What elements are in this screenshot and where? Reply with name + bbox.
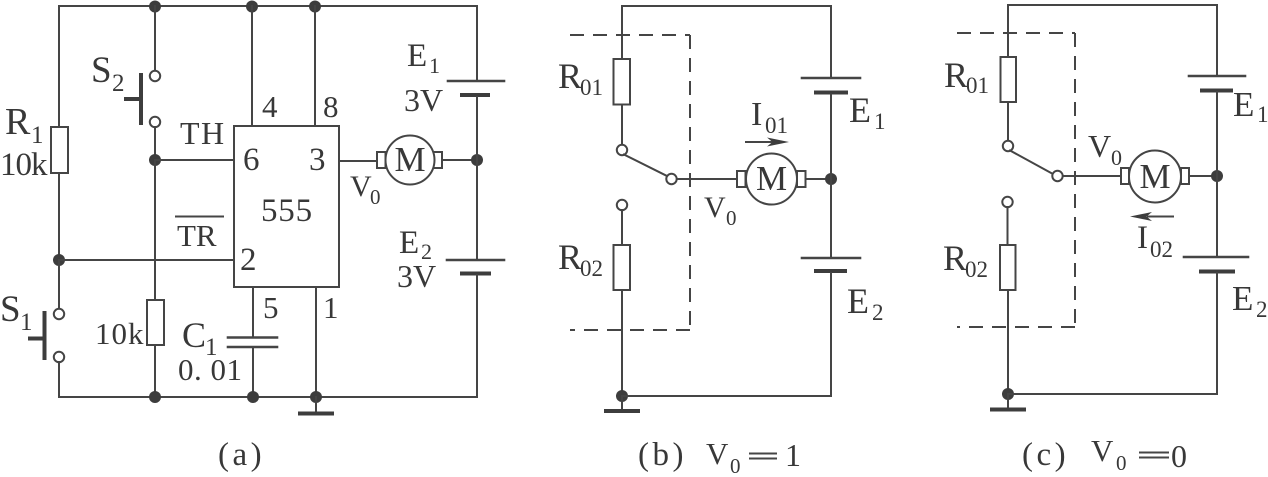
pin label 8 xyxy=(323,89,339,124)
battery E1 (c) xyxy=(1189,76,1245,91)
svg-text:0: 0 xyxy=(1171,438,1187,474)
dashed feedback box (c) xyxy=(957,33,1075,327)
wire 10k resistor to bottom rail xyxy=(154,345,156,397)
node 10k bottom junction xyxy=(149,391,161,403)
battery E1 (a) xyxy=(448,81,504,95)
switch S2 pushbutton xyxy=(126,71,160,127)
svg-text:V: V xyxy=(704,191,726,224)
wire pin4 to top rail xyxy=(251,6,253,126)
svg-text:2: 2 xyxy=(112,70,125,97)
label V0 output (a) xyxy=(350,170,381,209)
switch SPDT (b): blade xyxy=(624,155,667,177)
wire pin8 to top rail xyxy=(314,6,316,126)
node motor right rail junction (c) xyxy=(1211,170,1223,182)
wire left rail middle xyxy=(58,173,60,260)
wire node to S1 xyxy=(58,260,60,309)
svg-text:01: 01 xyxy=(966,73,989,98)
label 10k value of R1 xyxy=(0,147,48,183)
svg-text:E: E xyxy=(849,90,871,130)
node ground junction (b) xyxy=(616,390,628,402)
svg-text:E: E xyxy=(1233,85,1254,124)
wire motor to right rail (c) xyxy=(1189,175,1217,177)
switch SPDT (c): blade xyxy=(1010,151,1053,175)
label I02 current (c) xyxy=(1137,220,1173,262)
svg-text:E: E xyxy=(1232,279,1253,318)
label R1 xyxy=(5,101,44,149)
wire lower throw to R02 (b) xyxy=(621,210,623,245)
wire top rail (a) xyxy=(59,5,477,7)
ground (a) xyxy=(300,397,332,414)
wire right rail middle (b) xyxy=(830,95,832,258)
svg-text:02: 02 xyxy=(580,256,603,281)
switch S1 pushbutton xyxy=(30,309,64,362)
svg-text:V: V xyxy=(1091,433,1114,468)
svg-text:3: 3 xyxy=(309,142,326,178)
wire S1 to bottom rail xyxy=(58,362,60,397)
wire right rail middle (c) xyxy=(1216,92,1218,256)
svg-text:10k: 10k xyxy=(95,316,145,351)
wire pole to motor (b) xyxy=(677,178,737,180)
svg-text:E: E xyxy=(847,281,869,321)
label TR with overline xyxy=(176,217,223,254)
svg-text:2: 2 xyxy=(872,300,884,325)
svg-text:6: 6 xyxy=(243,142,260,178)
label E2 (c) xyxy=(1232,279,1268,322)
wire motor to right rail (b) xyxy=(806,178,832,180)
label V0 (c) xyxy=(1088,128,1122,170)
svg-text:(c): (c) xyxy=(1022,437,1069,473)
svg-text:8: 8 xyxy=(323,89,339,124)
label E1 (c) xyxy=(1233,85,1268,127)
svg-text:V: V xyxy=(350,170,372,203)
node ground junction (c) xyxy=(1002,388,1014,400)
svg-text:V: V xyxy=(1088,128,1111,164)
svg-text:01: 01 xyxy=(580,75,603,100)
svg-text:C: C xyxy=(182,315,206,355)
node motor right rail junction (b) xyxy=(825,173,837,185)
label C1 xyxy=(182,315,218,361)
label S2 xyxy=(91,50,125,97)
svg-text:M: M xyxy=(1139,157,1170,196)
svg-text:S: S xyxy=(0,289,21,330)
wire pin3 to motor xyxy=(339,160,377,162)
wire bottom rail (c) xyxy=(1008,393,1216,395)
svg-text:(b): (b) xyxy=(638,437,687,473)
label 10k value of lower resistor xyxy=(95,316,145,351)
label R01 (c) xyxy=(944,55,989,98)
wire top rail to R01 (c) xyxy=(1007,5,1009,57)
svg-text:I: I xyxy=(751,96,762,133)
svg-text:I: I xyxy=(1137,220,1148,256)
wire right rail bottom (c) xyxy=(1216,273,1218,394)
motor M (b) xyxy=(737,154,806,205)
node C1 bottom junction xyxy=(247,391,259,403)
svg-text:E: E xyxy=(399,225,419,261)
wire bottom rail (a) xyxy=(59,396,477,398)
node pin2 branch junction xyxy=(53,254,65,266)
svg-text:R: R xyxy=(558,237,582,277)
svg-text:0: 0 xyxy=(1116,451,1127,475)
motor M (c) xyxy=(1121,151,1189,203)
svg-text:0: 0 xyxy=(726,206,737,230)
wire pin1 to bottom rail xyxy=(315,287,317,397)
pin label 5 xyxy=(263,290,279,325)
svg-text:1: 1 xyxy=(20,309,33,336)
wire pin5 to capacitor xyxy=(252,287,254,337)
switch SPDT (c): pole terminal xyxy=(1052,171,1062,181)
node motor right rail junction xyxy=(471,154,483,166)
svg-text:10k: 10k xyxy=(0,147,48,183)
svg-text:1: 1 xyxy=(31,122,44,149)
node S2 top rail junction xyxy=(149,1,161,13)
label R02 (c) xyxy=(943,238,988,282)
motor M (a) xyxy=(377,136,442,185)
svg-text:02: 02 xyxy=(965,257,988,282)
caption (c) V0 = 0 xyxy=(1022,433,1187,475)
svg-text:3V: 3V xyxy=(404,82,443,118)
wire pin2 horizontal to 555 xyxy=(59,259,234,261)
pin label 2 xyxy=(240,242,257,278)
wire R02 to bottom rail (c) xyxy=(1007,290,1009,394)
svg-text:E: E xyxy=(407,38,427,74)
wire right rail top xyxy=(476,6,478,80)
resistor 10k lower body xyxy=(147,300,164,345)
battery E2 (a) xyxy=(447,260,504,274)
wire right rail bottom (b) xyxy=(830,273,832,396)
svg-text:(a): (a) xyxy=(218,437,265,473)
svg-text:M: M xyxy=(394,140,425,179)
switch SPDT (c): lower throw terminal xyxy=(1002,197,1012,207)
svg-text:R: R xyxy=(944,55,968,95)
svg-text:0: 0 xyxy=(1111,145,1122,170)
current arrow I01 (b) xyxy=(746,138,789,147)
svg-text:5: 5 xyxy=(263,290,279,325)
wire S2 to TH node xyxy=(154,127,156,160)
caption (b) V0 = 1 xyxy=(638,436,801,477)
ground (b) xyxy=(606,396,638,411)
wire TH node to pin 6 xyxy=(155,159,234,161)
label 3V of E2 (a) xyxy=(397,258,436,294)
label TH xyxy=(180,115,226,151)
svg-text:3V: 3V xyxy=(397,258,436,294)
svg-text:S: S xyxy=(91,50,112,91)
resistor R02 body (b) xyxy=(614,245,631,290)
capacitor C1 xyxy=(228,338,277,348)
pin label 3 xyxy=(309,142,326,178)
svg-text:1: 1 xyxy=(1257,102,1268,127)
node pin4 top rail junction xyxy=(246,1,258,13)
svg-text:0: 0 xyxy=(370,185,381,209)
ground (c) xyxy=(992,394,1024,410)
svg-text:TH: TH xyxy=(180,115,226,151)
switch SPDT (c): upper throw terminal xyxy=(1003,141,1013,151)
svg-text:1: 1 xyxy=(323,290,339,325)
label E1 (a) xyxy=(407,38,440,78)
battery E2 (c) xyxy=(1184,257,1248,272)
caption (a) xyxy=(218,437,265,473)
svg-text:R: R xyxy=(558,56,582,96)
wire R02 to bottom rail (b) xyxy=(621,290,623,396)
label 0.01 value of C1 xyxy=(178,352,243,387)
switch SPDT (b): pole terminal xyxy=(666,174,676,184)
svg-text:1: 1 xyxy=(874,109,886,134)
svg-text:0: 0 xyxy=(730,454,741,477)
switch SPDT (b): lower throw terminal xyxy=(617,200,627,210)
wire R01 to switch (b) xyxy=(621,105,623,145)
op-amp substitute: IC U1 555 body xyxy=(234,126,339,287)
switch SPDT (b): upper throw terminal xyxy=(617,145,627,155)
label S1 xyxy=(0,289,33,336)
pin label 4 xyxy=(262,89,278,124)
resistor R02 body (c) xyxy=(1000,245,1016,290)
svg-text:4: 4 xyxy=(262,89,278,124)
pin label 1 xyxy=(323,290,339,325)
battery E2 (b) xyxy=(802,258,860,271)
wire top rail (c) xyxy=(1008,4,1217,6)
wire TH node down to 10k resistor xyxy=(154,160,156,300)
wire right rail bottom xyxy=(476,275,478,397)
svg-text:555: 555 xyxy=(261,193,313,229)
wire C1 to bottom rail xyxy=(252,347,254,397)
wire top rail to R01 (b) xyxy=(621,6,623,59)
label R01 (b) xyxy=(558,56,603,100)
svg-text:01: 01 xyxy=(765,113,788,138)
wire right rail top (b) xyxy=(830,6,832,77)
svg-text:M: M xyxy=(756,159,787,198)
wire right rail middle xyxy=(476,97,478,259)
label 555 xyxy=(261,193,313,229)
wire motor to right rail xyxy=(442,159,477,161)
wire right rail top (c) xyxy=(1216,5,1218,75)
svg-text:TR: TR xyxy=(177,218,217,253)
svg-text:2: 2 xyxy=(1256,297,1268,322)
dashed feedback box (b) xyxy=(570,35,690,330)
label E2 (a) xyxy=(399,225,432,264)
wire bottom rail (b) xyxy=(622,395,831,397)
node TH junction xyxy=(149,154,161,166)
wire top rail to S2 xyxy=(154,6,156,71)
svg-text:V: V xyxy=(706,436,729,471)
wire R01 to switch (c) xyxy=(1007,102,1009,141)
svg-text:0. 01: 0. 01 xyxy=(178,352,243,387)
wire left rail upper xyxy=(58,6,60,127)
label R02 (b) xyxy=(558,237,603,281)
svg-text:R: R xyxy=(5,101,31,143)
resistor R01 body (b) xyxy=(614,59,631,105)
wire pole to motor (c) xyxy=(1063,175,1121,177)
node pin1 bottom junction xyxy=(310,391,322,403)
node pin8 top rail junction xyxy=(309,1,321,13)
resistor R1 body xyxy=(51,127,68,173)
label V0 (b) xyxy=(704,191,737,230)
battery E1 (b) xyxy=(802,78,860,93)
wire top rail (b) xyxy=(622,5,831,7)
label E2 (b) xyxy=(847,281,884,325)
svg-text:02: 02 xyxy=(1150,237,1173,262)
wire lower throw to R02 (c) xyxy=(1007,207,1009,245)
svg-text:R: R xyxy=(943,238,967,278)
resistor R01 body (c) xyxy=(1001,57,1017,102)
current arrow I02 (c) xyxy=(1130,212,1173,221)
svg-text:1: 1 xyxy=(429,53,440,78)
label I01 current (b) xyxy=(751,96,788,138)
svg-text:1: 1 xyxy=(785,437,801,473)
label 3V of E1 (a) xyxy=(404,82,443,118)
label E1 (b) xyxy=(849,90,886,134)
svg-text:2: 2 xyxy=(240,242,257,278)
pin label 6 xyxy=(243,142,260,178)
